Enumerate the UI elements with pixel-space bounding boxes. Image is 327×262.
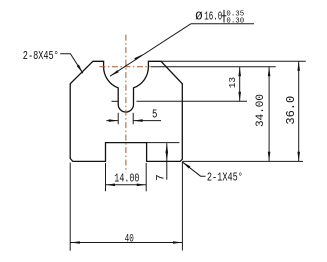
- svg-text:36.0: 36.0: [284, 96, 298, 125]
- svg-text:34.00: 34.00: [255, 94, 267, 127]
- svg-text:16.0: 16.0: [204, 11, 222, 24]
- svg-text:5: 5: [152, 108, 157, 122]
- svg-text:13: 13: [227, 77, 238, 89]
- svg-text:14.00: 14.00: [114, 172, 139, 186]
- svg-text:2-8X45°: 2-8X45°: [23, 50, 59, 64]
- svg-text:2-1X45°: 2-1X45°: [207, 171, 243, 185]
- svg-text:40: 40: [125, 232, 134, 245]
- svg-text:Ø: Ø: [195, 9, 203, 23]
- svg-text:7: 7: [155, 174, 167, 181]
